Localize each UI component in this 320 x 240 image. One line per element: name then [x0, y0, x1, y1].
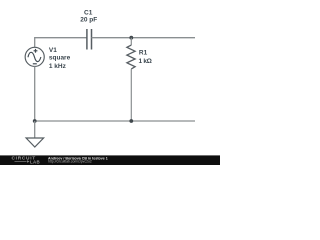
- svg-text:C1: C1: [84, 9, 93, 16]
- svg-text:1 kHz: 1 kHz: [49, 63, 67, 70]
- footer bar: [0, 155, 220, 165]
- svg-text:R1: R1: [139, 50, 148, 57]
- V1 sine wave: [28, 52, 41, 61]
- svg-text:V1: V1: [49, 47, 57, 54]
- svg-text:20 pF: 20 pF: [80, 17, 97, 24]
- wire: R1 bottom lead down to bottom rail: [130, 69, 132, 121]
- V1 plus sign: [34, 49, 38, 53]
- ground: [26, 138, 43, 147]
- wire: ground stub: [34, 121, 36, 138]
- footer logo underline: [15, 161, 27, 163]
- svg-text:1 kΩ: 1 kΩ: [139, 58, 152, 65]
- footer logo bolt: [27, 160, 30, 163]
- wire: R1 top lead: [130, 38, 132, 45]
- resistor R1: [127, 45, 135, 69]
- svg-text:LAB: LAB: [30, 159, 40, 164]
- capacitor C1: [87, 29, 92, 50]
- node: junction top of R1: [129, 36, 133, 40]
- node: junction at R1 bottom: [129, 119, 133, 123]
- voltage source V1: [25, 47, 44, 66]
- svg-text:square: square: [49, 55, 71, 62]
- wire: V1 top lead up and right to C1 left plate: [35, 38, 87, 48]
- wire: bottom rail: [35, 120, 195, 122]
- svg-text:http://circuitlab.com/c/pvc2u2: http://circuitlab.com/c/pvc2u2: [48, 160, 92, 164]
- V1 minus sign: [33, 63, 37, 65]
- node: junction at V1 bottom: [33, 119, 37, 123]
- wire: V1 bottom lead down to bottom rail: [34, 66, 36, 121]
- wire: C1 right plate to open end: [92, 37, 196, 39]
